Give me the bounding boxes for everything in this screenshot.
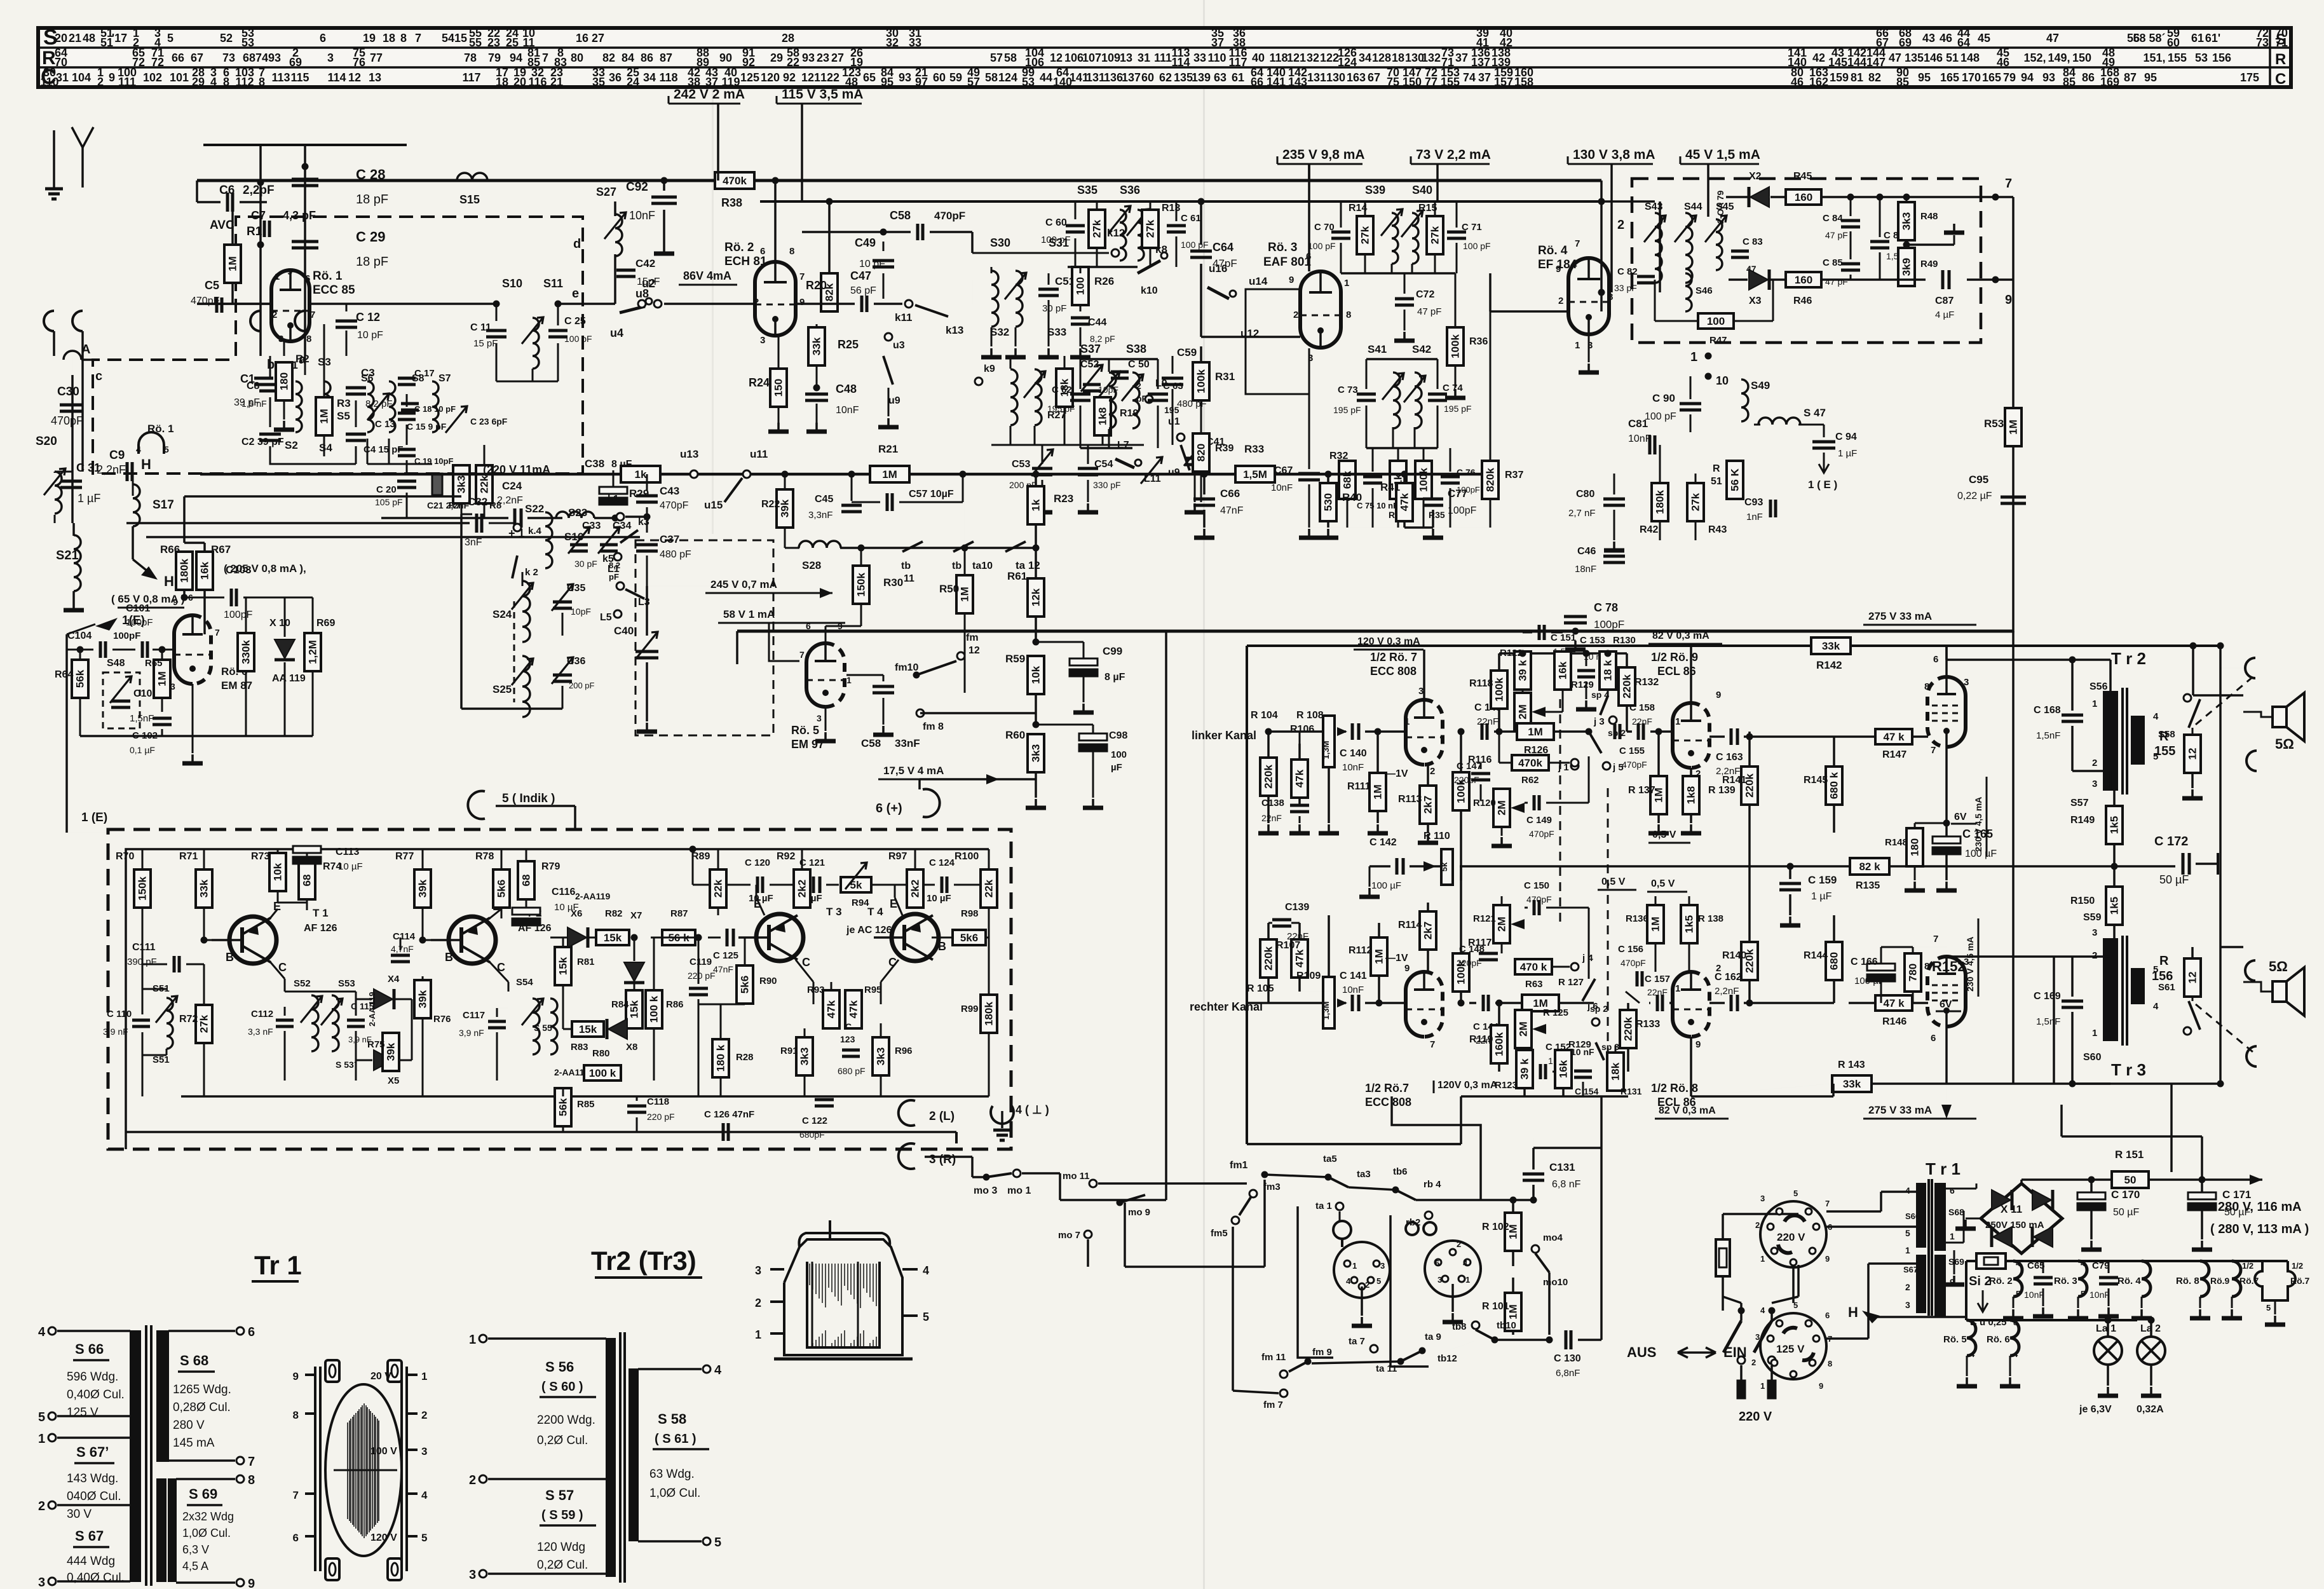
- capacitor C45 3,3nF: [841, 504, 862, 507]
- svg-text:120: 120: [761, 71, 780, 84]
- svg-text:4: 4: [2081, 1258, 2086, 1268]
- wire EM87 pins: [825, 626, 827, 643]
- svg-text:6: 6: [188, 592, 193, 603]
- svg-text:10 µF: 10 µF: [338, 861, 363, 872]
- wire IF2 bottom: [991, 444, 1144, 446]
- svg-text:C54: C54: [1094, 459, 1113, 470]
- resistor R121 2M: [1493, 905, 1510, 943]
- svg-text:3,9 nF: 3,9 nF: [103, 1026, 128, 1037]
- wire 235V drop: [1308, 164, 1310, 181]
- resistor R35 100k: [1415, 461, 1432, 499]
- resistor R142 33k: [1811, 638, 1851, 654]
- capacitor C12 10pF: [346, 304, 348, 311]
- svg-text:T r 2: T r 2: [2111, 649, 2146, 668]
- svg-text:82 V 0,3 mA: 82 V 0,3 mA: [1659, 1105, 1716, 1116]
- svg-text:R133: R133: [1636, 1019, 1660, 1030]
- node X7: [631, 934, 638, 941]
- svg-text:71: 71: [2275, 36, 2288, 49]
- Tr1 core lines: [1927, 1179, 1930, 1316]
- svg-text:1: 1: [1575, 340, 1580, 351]
- svg-text:1nF: 1nF: [1746, 512, 1763, 522]
- svg-text:220pF: 220pF: [1454, 775, 1479, 785]
- dipole hook b: [72, 311, 83, 331]
- resistor R96 3k3: [873, 1037, 889, 1075]
- switch sp4 sp2: [1600, 696, 1608, 715]
- svg-text:X8: X8: [626, 1042, 637, 1053]
- svg-text:R 125: R 125: [1543, 1007, 1568, 1018]
- svg-text:R37: R37: [1505, 470, 1523, 481]
- svg-text:2: 2: [1617, 218, 1624, 232]
- svg-text:0,28Ø Cul.: 0,28Ø Cul.: [173, 1401, 231, 1414]
- capacitor C121 10uF: [812, 876, 815, 893]
- capacitor C83 47pF: [1731, 250, 1749, 253]
- capacitor C53 200pF: [1032, 467, 1052, 470]
- svg-text:2: 2: [469, 1473, 476, 1487]
- svg-text:30 pF: 30 pF: [1042, 303, 1066, 314]
- svg-text:AUS: AUS: [1627, 1344, 1656, 1360]
- resistor R42 180k: [1652, 483, 1668, 521]
- svg-text:180k: 180k: [179, 559, 191, 583]
- svg-text:6: 6: [1825, 1311, 1830, 1320]
- coils S39 S40 trimmers: [1392, 213, 1398, 264]
- svg-text:9: 9: [109, 71, 115, 84]
- wire S41 top bottom: [1366, 358, 1437, 360]
- svg-text:470pF: 470pF: [660, 500, 689, 511]
- svg-text:6,8nF: 6,8nF: [1556, 1368, 1580, 1379]
- svg-text:77: 77: [1425, 76, 1437, 88]
- svg-text:48: 48: [83, 32, 95, 44]
- wire bridge top: [2020, 1180, 2023, 1183]
- svg-text:7: 7: [1931, 745, 1936, 756]
- svg-text:86: 86: [641, 51, 653, 64]
- wire 6+ vertical: [918, 779, 921, 789]
- svg-text:100k: 100k: [1195, 369, 1207, 393]
- svg-text:3k9: 3k9: [1901, 258, 1913, 276]
- svg-text:45 V 1,5 mA: 45 V 1,5 mA: [1685, 147, 1760, 162]
- svg-text:6: 6: [1306, 251, 1311, 262]
- resistor R82 15k: [596, 930, 629, 945]
- svg-text:R48: R48: [1920, 211, 1938, 222]
- svg-text:100 k: 100 k: [589, 1067, 616, 1079]
- resistor R25 33k: [808, 327, 825, 365]
- wire 275V feed down: [2012, 631, 2015, 1084]
- svg-text:390 pF: 390 pF: [127, 957, 157, 967]
- svg-text:22k: 22k: [479, 475, 491, 493]
- resistor R32 68k: [1339, 461, 1356, 499]
- svg-text:3: 3: [755, 1264, 761, 1277]
- resistor R146 47k: [1875, 995, 1912, 1011]
- svg-text:X 11: X 11: [2001, 1203, 2022, 1215]
- wire S21 column: [81, 445, 84, 472]
- tube Rö.1 heater half: [139, 432, 164, 454]
- capacitor C143 22nF: [1481, 723, 1484, 740]
- svg-text:1: 1: [275, 271, 280, 282]
- switch fm9 fm11: [1305, 1358, 1312, 1365]
- osc dashed box: [635, 540, 773, 735]
- svg-text:R122: R122: [1500, 648, 1523, 658]
- resistor R74 68: [299, 861, 315, 899]
- svg-text:u15: u15: [704, 499, 723, 511]
- svg-text:k13: k13: [946, 324, 963, 336]
- capacitor C4 15pF: [346, 433, 366, 436]
- resistor R46 160: [1786, 272, 1821, 287]
- svg-text:3 (R): 3 (R): [929, 1153, 956, 1166]
- capacitor C8 1,5nF: [254, 377, 273, 380]
- resistor R144 3k0: [1826, 942, 1842, 980]
- svg-text:3: 3: [38, 1576, 45, 1589]
- svg-text:2k7: 2k7: [1422, 922, 1434, 939]
- svg-text:120 Wdg: 120 Wdg: [537, 1541, 585, 1554]
- svg-text:R14: R14: [1349, 203, 1367, 214]
- svg-text:S32: S32: [990, 326, 1009, 338]
- svg-text:27k: 27k: [198, 1014, 210, 1033]
- svg-text:mo4: mo4: [1543, 1232, 1563, 1243]
- svg-text:10nF: 10nF: [1342, 762, 1364, 773]
- wire S57 down to R149: [2113, 790, 2116, 806]
- svg-text:18nF: 18nF: [1575, 564, 1596, 575]
- svg-text:8: 8: [2013, 1318, 2018, 1327]
- svg-text:1,5M: 1,5M: [1243, 468, 1267, 481]
- svg-text:S43: S43: [1645, 201, 1663, 212]
- svg-text:470pF: 470pF: [1526, 894, 1552, 904]
- wire ECH81 grid left: [664, 303, 755, 305]
- svg-text:58: 58: [1004, 51, 1017, 64]
- page fold shadow: [1203, 0, 1205, 1589]
- svg-text:C49: C49: [855, 236, 876, 249]
- svg-text:78: 78: [464, 51, 477, 64]
- svg-text:u9: u9: [888, 395, 900, 406]
- capacitor C171 50uF: [2188, 1192, 2216, 1199]
- svg-text:1 ( E ): 1 ( E ): [1808, 479, 1837, 491]
- svg-text:Rö. 5: Rö. 5: [791, 724, 819, 737]
- svg-text:165: 165: [1940, 71, 1959, 84]
- svg-text:S44: S44: [1684, 201, 1702, 212]
- wire down from ratio det: [2012, 280, 2015, 408]
- resistor R15 27k: [1427, 216, 1443, 254]
- resistor R129b 16k: [1555, 1050, 1572, 1088]
- svg-text:C80: C80: [1576, 489, 1594, 500]
- Tr2 diag pin 5: [703, 1538, 710, 1545]
- svg-text:10nF: 10nF: [1628, 433, 1652, 444]
- wire mo1 right: [1022, 1172, 1060, 1175]
- svg-text:33 pF: 33 pF: [1614, 283, 1637, 293]
- svg-text:160: 160: [1795, 191, 1812, 203]
- capacitor C20 105pF: [397, 480, 416, 483]
- wire osc column: [646, 586, 648, 636]
- svg-text:T 1: T 1: [313, 907, 329, 919]
- svg-text:sp 3: sp 3: [1601, 1042, 1619, 1052]
- resistor R99 180k: [981, 995, 997, 1033]
- svg-text:230 V 4,5 mA: 230 V 4,5 mA: [1965, 937, 1975, 992]
- svg-text:18 pF: 18 pF: [356, 255, 388, 269]
- wire k row to S35: [972, 303, 973, 304]
- wire antenna vertical b: [259, 145, 262, 324]
- svg-text:10nF: 10nF: [2024, 1290, 2044, 1300]
- svg-text:93: 93: [268, 51, 281, 64]
- svg-text:R77: R77: [395, 851, 414, 862]
- resistor R149 1k5: [2106, 806, 2123, 844]
- svg-text:7: 7: [799, 271, 805, 282]
- svg-text:22k: 22k: [983, 879, 995, 897]
- capacitor C15 9pF: [401, 402, 419, 406]
- svg-text:110: 110: [1207, 51, 1226, 64]
- switch tb9 ta10: [953, 542, 974, 552]
- svg-text:66: 66: [172, 51, 184, 64]
- capacitor C7 4,3pF: [263, 221, 266, 237]
- svg-text:81: 81: [1851, 71, 1863, 84]
- svg-text:Rö. 4: Rö. 4: [2117, 1276, 2141, 1286]
- capacitor C86 1,5nF: [1870, 240, 1889, 243]
- switch speaker R: [2189, 1001, 2200, 1030]
- resistor R87 56k: [662, 930, 695, 945]
- svg-text:X7: X7: [630, 910, 642, 921]
- coils S37 S38: [1109, 372, 1116, 428]
- svg-text:R20: R20: [806, 279, 827, 292]
- resistor R129 16k: [1554, 651, 1571, 690]
- svg-text:Rö. 2: Rö. 2: [1989, 1276, 2013, 1286]
- svg-text:3: 3: [817, 713, 822, 723]
- svg-text:6: 6: [1933, 654, 1938, 665]
- svg-text:( 280 V, 113 mA ): ( 280 V, 113 mA ): [2210, 1222, 2309, 1236]
- svg-text:60: 60: [933, 71, 946, 84]
- resistor R84 15k: [626, 990, 642, 1028]
- svg-text:6: 6: [1950, 1185, 1955, 1196]
- svg-text:95: 95: [2144, 71, 2157, 84]
- svg-text:R114: R114: [1398, 920, 1422, 931]
- resistor R141 220k: [1741, 767, 1758, 805]
- svg-text:2k2: 2k2: [909, 880, 921, 897]
- svg-text:( S 59 ): ( S 59 ): [541, 1508, 583, 1522]
- svg-text:9: 9: [799, 297, 805, 308]
- svg-text:9: 9: [1819, 1381, 1823, 1391]
- Tr1 diag pin 4: [48, 1327, 56, 1335]
- svg-text:21: 21: [550, 76, 563, 88]
- svg-text:R92: R92: [777, 851, 795, 862]
- svg-text:93: 93: [2042, 71, 2055, 84]
- wire second bus: [760, 200, 1601, 203]
- svg-text:S53: S53: [338, 978, 355, 989]
- svg-text:150: 150: [2072, 51, 2091, 64]
- svg-text:1M: 1M: [882, 468, 897, 481]
- svg-text:125 V: 125 V: [1776, 1343, 1805, 1355]
- wires tuner right cluster: [367, 439, 369, 464]
- capacitor C49 10pF: [883, 242, 885, 251]
- capacitor C50 2pF: [1111, 371, 1129, 374]
- resistor R3 1M: [316, 397, 332, 435]
- wire EF cathode: [1588, 334, 1590, 362]
- wire 130V drop: [1601, 164, 1602, 181]
- svg-text:59: 59: [949, 71, 962, 84]
- svg-text:530: 530: [1322, 493, 1335, 511]
- switch sp2 sp3 right: [1592, 1018, 1600, 1026]
- capacitor C17 10pF: [398, 377, 416, 380]
- heater Rö.5: [1967, 1320, 1976, 1356]
- switch mo4: [1532, 1245, 1539, 1253]
- svg-text:60: 60: [2167, 36, 2180, 49]
- svg-text:0,1 µF: 0,1 µF: [130, 745, 155, 755]
- wire S28 row left: [647, 585, 737, 587]
- svg-text:R45: R45: [1793, 171, 1812, 182]
- svg-text:C72: C72: [1416, 289, 1434, 300]
- svg-text:C 85: C 85: [1823, 257, 1843, 268]
- wire bridge left gnd: [1966, 1218, 1981, 1220]
- svg-text:23: 23: [817, 51, 829, 64]
- voltage selector 125V connector: [1760, 1313, 1826, 1379]
- capacitor C101 100pF: [141, 641, 144, 658]
- svg-text:C45: C45: [815, 494, 833, 505]
- svg-text:1/2 Rö.7: 1/2 Rö.7: [1365, 1082, 1409, 1095]
- svg-text:0,40Ø Cul.: 0,40Ø Cul.: [67, 1388, 125, 1401]
- resistor R47 100: [1698, 313, 1734, 329]
- svg-text:1,5nF: 1,5nF: [2036, 1016, 2060, 1027]
- svg-text:C 12: C 12: [356, 311, 380, 324]
- svg-text:1,2M: 1,2M: [307, 640, 319, 664]
- svg-text:C 76: C 76: [1457, 467, 1476, 477]
- resistor R124 2M: [1514, 693, 1531, 731]
- resistor R106 47k: [1291, 760, 1308, 798]
- capacitor C65 10nF: [2034, 1276, 2053, 1279]
- svg-text:3: 3: [1964, 677, 1969, 688]
- trimmer C33: [568, 527, 590, 554]
- svg-text:4: 4: [1346, 1276, 1351, 1286]
- svg-text:680 k: 680 k: [1828, 772, 1840, 799]
- svg-text:148: 148: [1960, 51, 1980, 64]
- svg-text:C59: C59: [1177, 346, 1197, 358]
- svg-text:100 pF: 100 pF: [564, 334, 592, 344]
- capacitor C148 220pF: [1479, 952, 1498, 955]
- svg-text:3: 3: [760, 335, 765, 346]
- node rb2: [1425, 1211, 1432, 1219]
- svg-text:1: 1: [1760, 1381, 1765, 1391]
- wire T3 emitter up: [756, 897, 764, 915]
- node k3 switch: [620, 530, 638, 543]
- svg-text:R64: R64: [55, 669, 73, 680]
- svg-text:R73: R73: [251, 851, 269, 862]
- svg-text:ta 1: ta 1: [1315, 1201, 1332, 1211]
- svg-text:C114: C114: [393, 931, 416, 942]
- capacitor C166 100uF: [1867, 964, 1895, 971]
- svg-text:0,5 V: 0,5 V: [1651, 878, 1675, 889]
- capacitor C159 1uF: [1779, 882, 1801, 885]
- wire R149 to C172 row: [2113, 844, 2116, 866]
- heater bus: [1966, 1260, 2288, 1262]
- resistor R39 820: [1193, 433, 1209, 472]
- svg-text:39k: 39k: [385, 1042, 397, 1061]
- capacitor C38 8µF: [599, 487, 627, 494]
- capacitor C93 1nF: [1769, 500, 1772, 517]
- svg-text:R30: R30: [883, 576, 903, 589]
- svg-text:56k: 56k: [557, 1098, 569, 1116]
- svg-text:6: 6: [248, 1325, 255, 1339]
- jack hook R2: [2246, 1046, 2257, 1067]
- node ta1: [1336, 1203, 1343, 1210]
- svg-text:16: 16: [576, 32, 588, 44]
- svg-text:102: 102: [143, 71, 162, 84]
- capacitor C113 10uF: [293, 846, 321, 853]
- node k11: [905, 300, 913, 308]
- svg-text:33: 33: [909, 36, 921, 49]
- svg-text:1k8: 1k8: [1097, 407, 1109, 425]
- svg-text:82 V 0,3 mA: 82 V 0,3 mA: [1652, 631, 1709, 641]
- svg-text:C116: C116: [552, 887, 575, 897]
- capacitor C120 10uF: [756, 876, 759, 893]
- node k12: [972, 252, 1109, 254]
- svg-text:R 143: R 143: [1838, 1060, 1865, 1070]
- svg-text:R94: R94: [852, 897, 869, 908]
- svg-text:7: 7: [799, 650, 805, 660]
- svg-text:33k: 33k: [1843, 1078, 1861, 1090]
- svg-text:S 67’: S 67’: [76, 1444, 109, 1460]
- svg-text:22nF: 22nF: [1477, 716, 1498, 727]
- transformer Tr2 secondary S58: [2131, 716, 2144, 764]
- svg-text:61': 61': [2205, 32, 2220, 44]
- svg-text:125 V: 125 V: [67, 1406, 99, 1419]
- svg-text:S 66: S 66: [75, 1341, 104, 1357]
- node u16 switch: [1207, 287, 1229, 299]
- svg-text:9: 9: [1556, 264, 1561, 275]
- wire PSU riser: [2201, 1136, 2203, 1180]
- svg-text:8: 8: [248, 1473, 255, 1487]
- svg-text:linker Kanal: linker Kanal: [1192, 729, 1256, 742]
- svg-text:S68: S68: [1948, 1207, 1964, 1217]
- svg-text:5: 5: [1905, 1228, 1910, 1238]
- tuner unit dashed box: [93, 217, 583, 474]
- svg-text:100 pF: 100 pF: [1463, 241, 1491, 251]
- svg-text:144: 144: [1847, 56, 1866, 69]
- DIN socket phono: [1334, 1242, 1390, 1298]
- svg-text:25: 25: [506, 36, 519, 49]
- svg-text:C 23 6pF: C 23 6pF: [470, 416, 508, 426]
- svg-text:10 pF: 10 pF: [859, 259, 885, 269]
- resistor R20: [821, 273, 838, 311]
- resistor R97 2k2: [907, 870, 923, 908]
- svg-text:T r 1: T r 1: [1926, 1159, 1960, 1178]
- svg-text:1M: 1M: [1373, 949, 1385, 964]
- tube Rö.1 ECC85: [271, 270, 309, 341]
- svg-text:u13: u13: [680, 448, 698, 460]
- svg-text:22k: 22k: [712, 879, 724, 897]
- svg-text:R40: R40: [1342, 491, 1362, 503]
- svg-text:37: 37: [705, 76, 718, 88]
- svg-text:R96: R96: [895, 1046, 913, 1056]
- svg-text:3k3: 3k3: [799, 1047, 811, 1065]
- svg-text:10 pF: 10 pF: [357, 330, 383, 341]
- svg-text:S40: S40: [1412, 184, 1432, 196]
- wire fm1 row: [1261, 1171, 1268, 1178]
- svg-text:330k: 330k: [240, 640, 252, 664]
- wire EF184 anode from bus: [1611, 164, 1612, 191]
- svg-text:4,7nF: 4,7nF: [391, 944, 414, 954]
- resistor R89 22k: [710, 870, 726, 908]
- wire ECL86L anode: [1690, 644, 1692, 703]
- svg-text:C46: C46: [1577, 546, 1596, 557]
- svg-text:C 29: C 29: [356, 229, 385, 245]
- svg-text:C77: C77: [1448, 488, 1467, 500]
- svg-text:R75: R75: [367, 1039, 385, 1050]
- svg-text:R28: R28: [736, 1052, 754, 1063]
- svg-text:R93: R93: [807, 985, 825, 995]
- svg-text:444 Wdg: 444 Wdg: [67, 1555, 115, 1568]
- svg-text:15 pF: 15 pF: [473, 338, 498, 349]
- resistor R148 180: [1906, 828, 1923, 866]
- capacitor C82 33pF: [1637, 275, 1655, 278]
- svg-text:141: 141: [1267, 76, 1286, 88]
- svg-text:128: 128: [1372, 51, 1391, 64]
- svg-text:1,0Ø Cul.: 1,0Ø Cul.: [649, 1487, 700, 1500]
- svg-text:155: 155: [2168, 51, 2187, 64]
- wire connector to Tr1: [1826, 1225, 1917, 1228]
- trimmer coils S35: [1120, 210, 1126, 261]
